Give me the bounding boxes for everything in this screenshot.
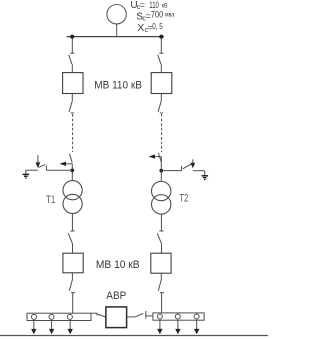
- svg-text:Т1: Т1: [46, 194, 55, 206]
- svg-text:МВ 10 кВ: МВ 10 кВ: [96, 259, 140, 271]
- svg-text:МВ 110 кВ: МВ 110 кВ: [94, 80, 142, 92]
- svg-text:0, 5: 0, 5: [152, 22, 163, 31]
- svg-text:Т2: Т2: [179, 192, 188, 204]
- svg-text:X: X: [137, 22, 144, 34]
- svg-text:мва: мва: [165, 12, 175, 18]
- svg-text:=: =: [140, 0, 145, 10]
- svg-text:АВР: АВР: [106, 290, 126, 302]
- svg-text:700: 700: [151, 9, 163, 20]
